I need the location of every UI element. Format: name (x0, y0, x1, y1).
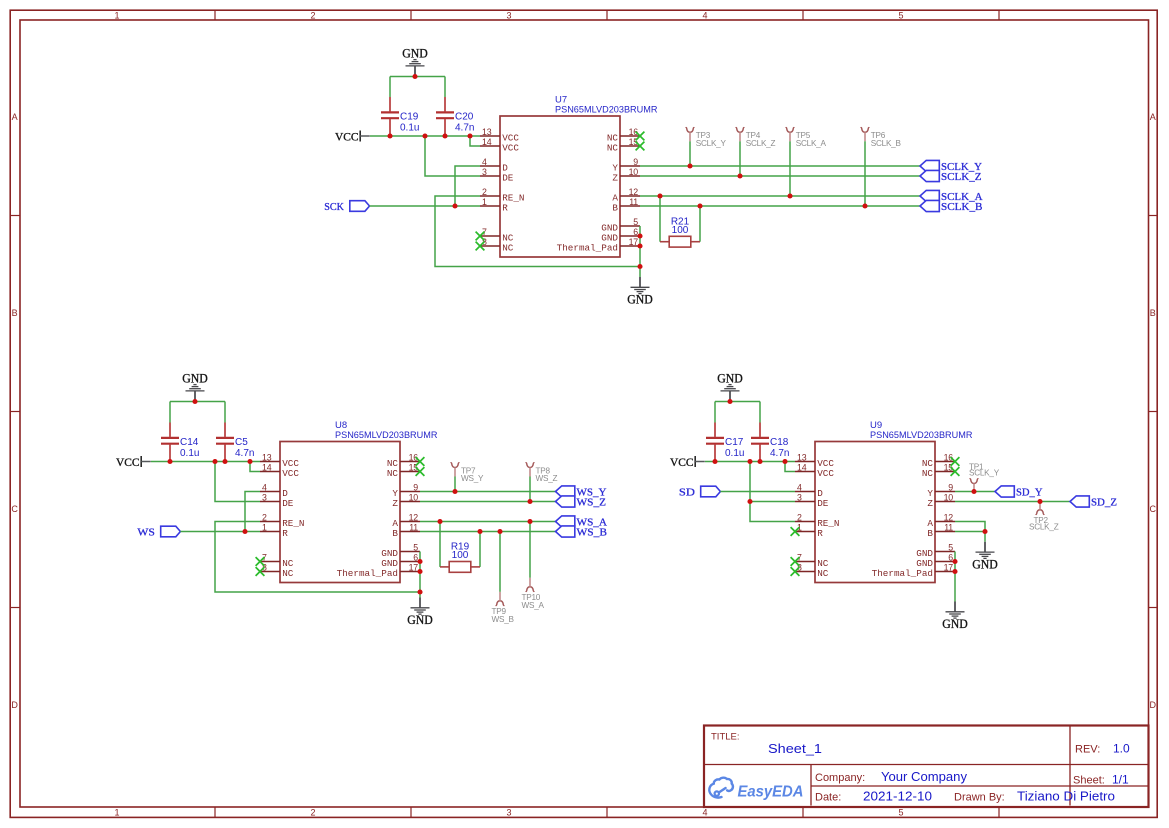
svg-text:SCLK_Z: SCLK_Z (941, 171, 982, 183)
svg-text:Sheet_1: Sheet_1 (768, 741, 822, 756)
svg-text:5: 5 (898, 808, 903, 818)
wire B net WS_B (420, 531, 556, 533)
wire pin 2 RE_N to ground loop U8 (215, 522, 420, 593)
junction DE tap U9 (747, 499, 752, 504)
wire GND pins 5/6/17 U9 (954, 552, 956, 602)
svg-text:VCC: VCC (116, 455, 140, 469)
wire VCC branch to pin 14 U8 (250, 462, 260, 472)
no-connect X pins 16,15 U7 (636, 132, 645, 151)
svg-text:WS_B: WS_B (492, 615, 515, 624)
junction GND rail U7 (412, 74, 417, 79)
test point TP4 SCLK_Z (736, 128, 776, 176)
svg-text:Sheet:: Sheet: (1073, 775, 1105, 787)
svg-text:SD: SD (679, 487, 695, 499)
junction SCK/D node (452, 203, 457, 208)
wire VCC branch to pin 14 U9 (785, 462, 795, 472)
svg-text:GND: GND (942, 617, 968, 631)
svg-text:GND: GND (627, 293, 653, 307)
resistor R21 100 (660, 196, 700, 247)
wire VCC branch to pin 3 DE U7 (425, 136, 480, 176)
wire GND pins 5/6/17 U7 (639, 226, 641, 277)
svg-text:VCC: VCC (335, 130, 359, 144)
test point TP6 SCLK_B (861, 128, 902, 206)
junction VCC rail U8 (167, 459, 252, 464)
svg-text:SCLK_Z: SCLK_Z (1029, 523, 1059, 532)
net flag WS (137, 526, 180, 539)
capacitor C20 4.7n (436, 97, 474, 136)
net flag SD_Z (1070, 496, 1117, 509)
svg-text:Drawn By:: Drawn By: (954, 792, 1005, 804)
wire Y net WS_Y (420, 491, 556, 493)
svg-text:C: C (11, 504, 18, 514)
capacitor C14 0.1u (161, 423, 199, 462)
svg-text:GND: GND (402, 47, 428, 61)
wire SD to pin 4 D U9 (720, 491, 795, 493)
wire VCC to pin 13 U9 (705, 461, 795, 463)
power flag VCC (U7) (335, 130, 370, 144)
wire Z net SCLK_Z (640, 175, 920, 177)
svg-text:REV:: REV: (1075, 744, 1100, 756)
svg-text:C17: C17 (725, 437, 744, 448)
svg-text:D: D (11, 700, 18, 710)
svg-text:WS_Z: WS_Z (536, 474, 558, 483)
svg-text:Tiziano Di Pietro: Tiziano Di Pietro (1017, 790, 1115, 804)
svg-text:SCLK_B: SCLK_B (941, 201, 983, 213)
junction GND pins U7 (637, 233, 642, 269)
junction GND rail U8 (192, 399, 197, 404)
net flag WS_A (556, 516, 608, 529)
svg-text:Date:: Date: (815, 792, 841, 804)
svg-text:PSN65MLVD203BRUMR: PSN65MLVD203BRUMR (555, 104, 658, 115)
test point TP9 WS_B (492, 532, 515, 624)
ground at A/B U9 (972, 542, 998, 572)
svg-text:3: 3 (506, 808, 511, 818)
wire A net WS_A (420, 521, 556, 523)
ground below U7 (627, 277, 653, 307)
svg-text:0.1u: 0.1u (180, 448, 199, 459)
net flag SCLK_B (920, 200, 983, 213)
svg-text:SCLK_A: SCLK_A (796, 139, 827, 148)
wire GND rail U9 (715, 402, 760, 423)
net flag SCK (324, 201, 369, 214)
junction GND rail U9 (727, 399, 732, 404)
ground GND net flag (top of U9 decoupling) (717, 372, 743, 402)
svg-text:2: 2 (310, 808, 315, 818)
capacitor C18 4.7n (751, 423, 789, 462)
svg-text:1/1: 1/1 (1112, 773, 1129, 787)
svg-text:WS_A: WS_A (522, 601, 545, 610)
junction VCC rail U7 (387, 133, 472, 138)
wire pin 4 D to SCK net U7 (455, 166, 480, 206)
svg-text:Company:: Company: (815, 772, 865, 784)
svg-text:4.7n: 4.7n (235, 448, 254, 459)
no-connect X pins 16,15 U8 (416, 457, 425, 476)
svg-text:PSN65MLVD203BRUMR: PSN65MLVD203BRUMR (870, 430, 973, 441)
svg-text:3: 3 (506, 10, 511, 20)
svg-text:WS_Z: WS_Z (577, 497, 607, 509)
junction GND pins U9 (952, 559, 957, 574)
svg-text:SCLK_B: SCLK_B (871, 139, 902, 148)
svg-text:C19: C19 (400, 111, 419, 122)
svg-text:4: 4 (702, 808, 707, 818)
ground below U9 (942, 602, 968, 632)
svg-text:TITLE:: TITLE: (711, 732, 740, 743)
junction A/B node U9 (982, 529, 987, 534)
svg-text:SCLK_Y: SCLK_Y (969, 468, 1000, 477)
test point TP7 WS_Y (451, 463, 484, 492)
svg-text:WS: WS (137, 527, 155, 539)
svg-text:Your Company: Your Company (881, 770, 968, 784)
title block (704, 726, 1149, 808)
wire Y net SD_Y (955, 491, 995, 493)
junction VCC rail U9 (712, 459, 787, 464)
svg-text:GND: GND (972, 558, 998, 572)
wire VCC branch to pin 14 U7 (470, 136, 480, 146)
wire B net SCLK_B (640, 205, 920, 207)
junction Y/Z/A/B nets U7 (657, 163, 867, 208)
test point TP5 SCLK_A (786, 128, 827, 196)
svg-text:VCC: VCC (670, 455, 694, 469)
svg-text:100: 100 (452, 550, 469, 561)
junction GND pins U8 (417, 559, 422, 595)
svg-text:1.0: 1.0 (1113, 742, 1130, 756)
svg-text:GND: GND (182, 372, 208, 386)
wire Y net SCLK_Y (640, 165, 920, 167)
svg-text:4: 4 (702, 10, 707, 20)
svg-text:A: A (12, 112, 18, 122)
ground GND net flag (top of U7 decoupling) (402, 47, 428, 77)
svg-text:GND: GND (717, 372, 743, 386)
no-connect X pins 7,8 U7 (476, 232, 485, 251)
wire VCC branch to pin 3 DE U8 (215, 462, 260, 502)
net flag WS_Y (556, 486, 607, 499)
wire WS to pin 1 R U8 (180, 531, 260, 533)
svg-text:0.1u: 0.1u (400, 122, 419, 133)
net flag SCLK_Y (920, 160, 982, 173)
junction WS/D node (242, 529, 247, 534)
wire A net SCLK_A (640, 195, 920, 197)
wire GND pins 5/6/17 U8 (419, 552, 421, 598)
wire VCC to pin 13 U8 (151, 461, 260, 463)
no-connect X pins 7,8 U9 (791, 557, 800, 576)
test point TP2 SCLK_Z (1029, 501, 1059, 532)
svg-text:C: C (1150, 504, 1157, 514)
wire Z net WS_Z (420, 501, 556, 503)
svg-text:1: 1 (114, 808, 119, 818)
wire GND rail U8 (170, 402, 225, 423)
net flag WS_B (556, 526, 608, 539)
wire GND rail U7 (390, 77, 445, 98)
IC U8 PSN65MLVD203BRUMR (260, 420, 438, 583)
svg-text:PSN65MLVD203BRUMR: PSN65MLVD203BRUMR (335, 430, 438, 441)
net flag WS_Z (556, 496, 607, 509)
svg-text:2: 2 (310, 10, 315, 20)
no-connect X pins 7,8 U8 (256, 557, 265, 576)
IC U9 PSN65MLVD203BRUMR (795, 420, 973, 583)
svg-text:B: B (12, 308, 18, 318)
capacitor C17 0.1u (706, 423, 744, 462)
capacitor C19 0.1u (381, 97, 419, 136)
svg-text:WS_B: WS_B (577, 527, 608, 539)
no-connect X pin 1 R U9 (791, 527, 800, 536)
resistor R19 100 (440, 522, 480, 573)
svg-text:4.7n: 4.7n (455, 122, 474, 133)
svg-text:4.7n: 4.7n (770, 448, 789, 459)
capacitor C5 4.7n (216, 423, 254, 462)
svg-text:C20: C20 (455, 111, 474, 122)
svg-text:1: 1 (114, 10, 119, 20)
svg-text:2021-12-10: 2021-12-10 (863, 790, 932, 804)
IC U7 PSN65MLVD203BRUMR (480, 94, 658, 257)
ground GND net flag (top of U8 decoupling) (182, 372, 208, 402)
wire A/B tied to ground U9 (955, 522, 985, 542)
svg-text:D: D (1150, 700, 1157, 710)
test point TP8 WS_Z (526, 463, 558, 502)
net flag SCLK_Z (920, 170, 982, 183)
power flag VCC (U9) (670, 455, 705, 469)
wire pin 4 D to WS net U8 (245, 492, 260, 532)
svg-text:100: 100 (672, 225, 689, 236)
junction TP1 node (971, 489, 976, 494)
svg-text:WS_Y: WS_Y (461, 474, 484, 483)
test point TP10 WS_A (522, 522, 545, 610)
wire SCK to pin 1 R U7 (370, 205, 481, 207)
svg-text:C5: C5 (235, 437, 248, 448)
svg-text:5: 5 (898, 10, 903, 20)
wire VCC branch to pins DE and RE_N U9 (750, 462, 795, 522)
svg-text:SD_Z: SD_Z (1091, 497, 1117, 509)
test point TP1 SCLK_Y (969, 463, 1000, 493)
svg-text:SD_Y: SD_Y (1016, 487, 1043, 499)
svg-text:EasyEDA: EasyEDA (738, 784, 804, 801)
svg-text:0.1u: 0.1u (725, 448, 744, 459)
svg-text:SCLK_Y: SCLK_Y (696, 139, 727, 148)
EasyEDA logo (709, 778, 803, 801)
svg-text:SCK: SCK (324, 201, 344, 213)
svg-text:C14: C14 (180, 437, 199, 448)
svg-text:C18: C18 (770, 437, 789, 448)
junction TP2 node (1037, 499, 1042, 504)
svg-text:GND: GND (407, 613, 433, 627)
svg-text:A: A (1150, 112, 1156, 122)
net flag SD (679, 486, 721, 499)
svg-text:SCLK_Z: SCLK_Z (746, 139, 776, 148)
wire pin 2 RE_N to ground loop U7 (435, 196, 640, 267)
svg-text:B: B (1150, 308, 1156, 318)
no-connect X pins 16,15 U9 (951, 457, 960, 476)
net flag SD_Y (995, 486, 1043, 499)
wire Z net SD_Z (955, 501, 1070, 503)
wire VCC to pin 13 U7 (370, 135, 480, 137)
net flag SCLK_A (920, 190, 983, 203)
power flag VCC (U8) (116, 455, 151, 469)
ground below U8 (407, 598, 433, 628)
junction Y/Z/A/B nets U8 (437, 489, 532, 534)
test point TP3 SCLK_Y (686, 128, 727, 166)
